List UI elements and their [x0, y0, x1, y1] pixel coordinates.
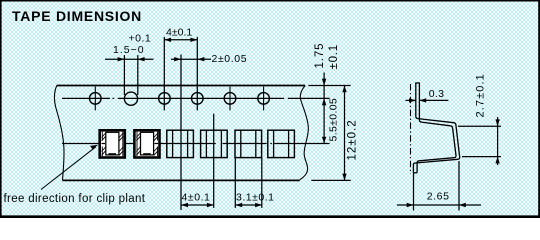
pocket 4: [201, 130, 228, 157]
svg-text:2±0.05: 2±0.05: [212, 53, 248, 65]
dim 0.3 : clip wall thickness: [406, 88, 449, 103]
pocket 2 (cross-section with clip): [134, 130, 159, 157]
dim 1.5 +0.1/-0 : hole diameter: [105, 32, 154, 95]
dim 4±0.1 top : hole pitch: [164, 26, 197, 110]
svg-text:5.5±0.05: 5.5±0.05: [328, 98, 340, 142]
pocket 3: [167, 130, 194, 157]
sprocket hole 5: [224, 87, 236, 111]
dim 2.7±0.1 : clip height: [458, 73, 501, 165]
svg-text:2.65: 2.65: [427, 191, 450, 203]
sprocket hole 4: [192, 93, 204, 105]
svg-text:1.75: 1.75: [314, 43, 326, 69]
svg-text:free direction for clip plant: free direction for clip plant: [4, 193, 146, 205]
dim 3.1±0.1 : pocket width: [235, 158, 274, 208]
tape left torn edge: [54, 86, 64, 181]
sprocket hole 2 (dimensioned 1.5): [124, 92, 137, 105]
dim 4±0.1 bottom : pocket pitch: [181, 114, 214, 208]
dim 5.5±0.05 : hole CL to pocket CL: [322, 98, 340, 144]
svg-text:2.7±0.1: 2.7±0.1: [475, 73, 487, 117]
svg-text:3.1±0.1: 3.1±0.1: [236, 192, 274, 204]
pocket 6: [268, 130, 295, 157]
dim 1.75±0.1 : edge to hole centerline (right side): [308, 43, 350, 144]
pocket 5: [235, 130, 262, 157]
datum dashed line: [410, 84, 412, 174]
svg-text:12±0.2: 12±0.2: [346, 119, 358, 160]
sprocket hole centerline (dash-dot): [62, 97, 330, 99]
svg-text:0.3: 0.3: [429, 88, 445, 100]
dim 2.65 : clip depth: [397, 161, 481, 211]
tape right torn edge: [300, 86, 309, 180]
svg-text:±0.1: ±0.1: [328, 44, 340, 70]
tape top edge: [57, 85, 305, 87]
svg-text:TAPE DIMENSION: TAPE DIMENSION: [12, 8, 142, 24]
pocket centerline (dash-dot): [62, 143, 330, 145]
dim 12±0.2 : tape width: [311, 86, 358, 181]
clip profile: [413, 83, 459, 173]
tape bottom edge: [63, 179, 300, 181]
svg-text:4±0.1: 4±0.1: [166, 26, 192, 38]
pocket 1 (cross-section with clip): [100, 130, 125, 157]
svg-text:4±0.1: 4±0.1: [182, 192, 211, 204]
svg-text:1.5−0: 1.5−0: [113, 44, 145, 56]
sprocket hole 6: [258, 87, 270, 111]
svg-text:+0.1: +0.1: [129, 32, 152, 44]
dim 2±0.05 : hole to pocket center: [171, 53, 247, 210]
sprocket hole 3: [159, 93, 171, 105]
sprocket hole 1: [90, 87, 102, 111]
leader: free direction for clip plant: [4, 145, 146, 205]
